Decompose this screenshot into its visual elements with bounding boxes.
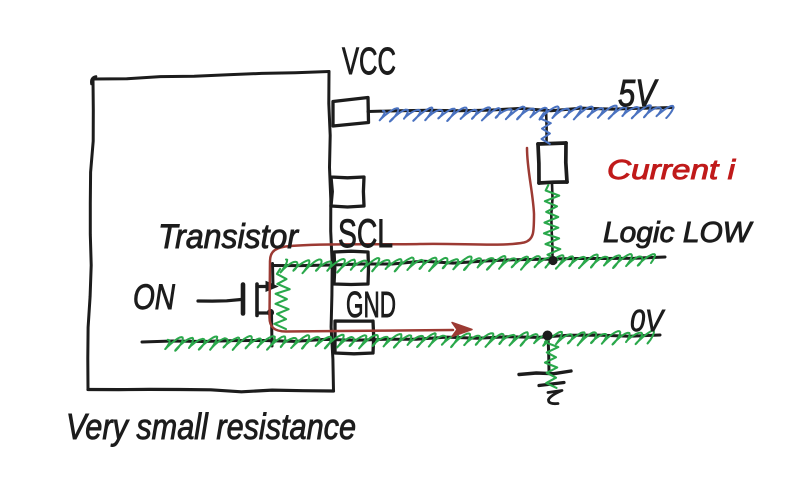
svg-text:ON: ON bbox=[133, 278, 176, 317]
highlight 5V rail (blue scribble) bbox=[380, 105, 674, 121]
resistor R pull-up bbox=[538, 143, 567, 183]
svg-text:VCC: VCC bbox=[342, 41, 396, 83]
wire 0V line bbox=[142, 335, 660, 342]
transistor Q1 (MOSFET, ON) bbox=[198, 264, 278, 347]
highlight resistor top (blue squiggle) bbox=[540, 113, 551, 144]
svg-text:5V: 5V bbox=[618, 73, 659, 115]
node junction SCL/resistor bbox=[548, 256, 557, 265]
highlight SCL line (green scribble) bbox=[281, 254, 656, 273]
IC body (chip outline) bbox=[88, 72, 334, 392]
svg-text:GND: GND bbox=[346, 284, 396, 325]
wire SCL line (Logic LOW) bbox=[271, 257, 665, 266]
current arrowhead bbox=[452, 323, 472, 337]
wire resistor top stub bbox=[545, 109, 548, 144]
pin GND bbox=[335, 321, 374, 354]
wire resistor bottom to SCL node bbox=[551, 183, 552, 261]
pin VCC (rectangle on chip edge) bbox=[333, 98, 369, 127]
highlight ground lead (green zigzag) bbox=[545, 337, 558, 388]
node junction 0V/ground bbox=[543, 331, 553, 341]
svg-text:Very small resistance: Very small resistance bbox=[66, 406, 356, 447]
pin SCL bbox=[334, 251, 369, 284]
svg-text:Transistor: Transistor bbox=[158, 218, 300, 256]
current path i (red curve) bbox=[270, 148, 535, 332]
svg-text:Logic LOW: Logic LOW bbox=[603, 217, 754, 249]
pin 2 unlabeled bbox=[331, 177, 364, 207]
ground symbol bbox=[519, 336, 571, 404]
highlight transistor channel (green zigzag) bbox=[274, 269, 289, 329]
svg-text:Current i: Current i bbox=[607, 154, 736, 185]
wire 5V rail (VCC pin to right) bbox=[368, 108, 673, 112]
highlight 0V line (green scribble) bbox=[165, 331, 654, 351]
svg-text:0V: 0V bbox=[630, 303, 666, 338]
highlight resistor-to-SCL (green zigzag) bbox=[544, 185, 560, 260]
svg-text:SCL: SCL bbox=[338, 212, 393, 256]
